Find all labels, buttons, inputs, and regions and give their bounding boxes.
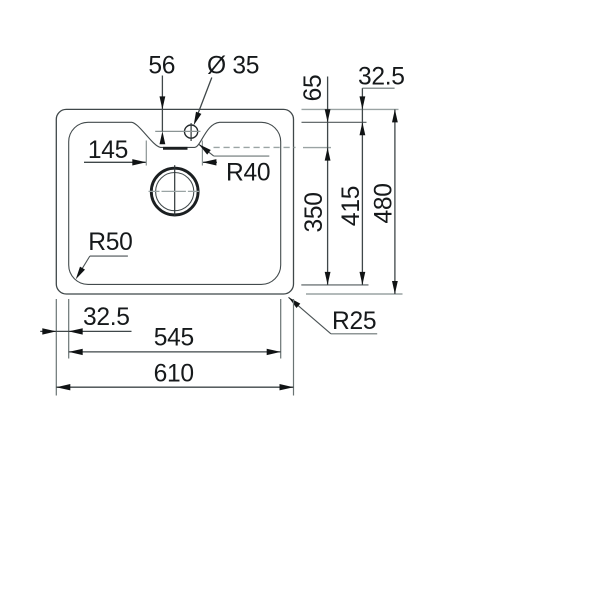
svg-text:R40: R40 xyxy=(226,159,270,186)
R50 arrow xyxy=(76,267,85,280)
right ext inner top xyxy=(302,121,367,123)
svg-text:145: 145 xyxy=(88,137,128,164)
svg-text:R25: R25 xyxy=(332,308,376,335)
dia 35 leader xyxy=(195,78,212,122)
dim 610 arrow left xyxy=(56,384,70,390)
dim 350 arrow down xyxy=(325,272,331,285)
dim 145 arrow right xyxy=(132,159,146,165)
tap hole center line horizontal xyxy=(155,130,200,132)
drain outer circle xyxy=(151,168,198,215)
dim 145 extension right xyxy=(201,141,203,166)
svg-text:610: 610 xyxy=(154,360,194,387)
dim 480 arrow down xyxy=(392,281,398,294)
R25 leader xyxy=(289,297,331,334)
sink outer rim xyxy=(56,109,293,294)
dim 32.5 bottom arrow right xyxy=(42,328,56,334)
R40 leader xyxy=(199,144,214,156)
dim 415 arrow down xyxy=(360,272,366,285)
svg-text:R50: R50 xyxy=(88,229,132,256)
dim 65/350 arrow up xyxy=(325,148,331,161)
dim 65 arrow down xyxy=(325,109,331,122)
dim 145 line xyxy=(84,161,146,163)
dim 145 arrow left xyxy=(202,159,216,165)
drain crosshair vertical xyxy=(174,165,176,216)
dim 32.5/415 arrow up xyxy=(360,122,366,135)
dim 32.5 bottom line xyxy=(40,330,131,332)
dim 610 line xyxy=(56,386,293,388)
R50 leader xyxy=(90,255,128,257)
svg-text:56: 56 xyxy=(148,52,175,79)
drain inner circle xyxy=(156,173,194,211)
right ext outer bottom xyxy=(306,293,403,295)
bottom ext inner left xyxy=(68,299,70,359)
dim 545 arrow left xyxy=(69,349,83,355)
bottom ext outer right xyxy=(293,299,295,396)
svg-text:350: 350 xyxy=(301,192,328,232)
dim 32.5 arrow down xyxy=(360,96,366,109)
dia 35 leader arrow xyxy=(194,112,202,126)
sink inner basin with tap notch xyxy=(69,122,281,284)
dim 480 arrow up xyxy=(392,109,398,122)
svg-text:480: 480 xyxy=(371,183,398,223)
dim 32.5/415 line xyxy=(361,88,363,285)
dim 145 extension left xyxy=(145,141,147,166)
dim 545 line xyxy=(69,351,281,353)
dashed tap level line xyxy=(214,146,296,148)
dim 56 arrow down xyxy=(160,96,166,109)
dim 32.5 top elbow xyxy=(362,87,394,89)
svg-text:545: 545 xyxy=(154,324,194,351)
tap hole crosshair vertical xyxy=(190,123,192,141)
R25 arrow xyxy=(289,297,301,308)
dim 480 line xyxy=(394,109,396,294)
right ext notch level xyxy=(303,147,331,149)
R40 arrow xyxy=(199,144,211,154)
dim 65/350 line xyxy=(327,77,329,285)
right ext top edge xyxy=(302,108,399,110)
dim 610 arrow right xyxy=(280,384,294,390)
svg-text:32.5: 32.5 xyxy=(83,304,130,331)
bottom ext outer left xyxy=(55,299,57,396)
dim 56 arrow up xyxy=(160,131,166,144)
right ext inner bottom xyxy=(301,284,368,286)
bottom ext inner right xyxy=(280,299,282,359)
svg-text:32.5: 32.5 xyxy=(358,63,405,90)
dim 56 line xyxy=(161,76,163,132)
svg-text:Ø 35: Ø 35 xyxy=(207,52,259,79)
tap hole circle xyxy=(185,125,198,138)
svg-text:65: 65 xyxy=(300,75,327,102)
notch bottom bold edge xyxy=(163,147,188,150)
dim 32.5 bottom arrow left xyxy=(69,328,83,334)
dim 545 arrow right xyxy=(267,349,281,355)
svg-text:415: 415 xyxy=(338,186,365,226)
drain center line horizontal xyxy=(149,190,200,192)
